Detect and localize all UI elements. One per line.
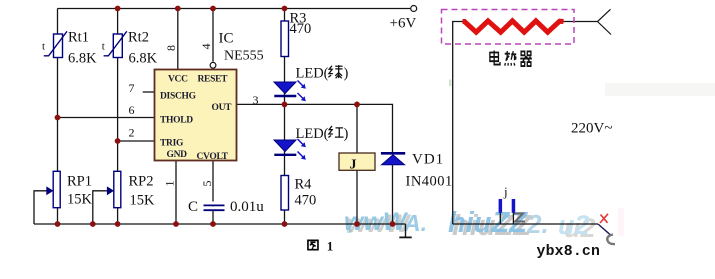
thermistor Rt2 xyxy=(104,31,127,57)
svg-text:ybx8.cn: ybx8.cn xyxy=(537,244,601,260)
value label RP2 xyxy=(129,174,156,209)
value label C xyxy=(188,199,264,215)
svg-text:): ) xyxy=(344,66,349,82)
svg-text:1: 1 xyxy=(327,238,334,253)
svg-text:CVOLT: CVOLT xyxy=(197,152,229,162)
svg-text:VD1: VD1 xyxy=(412,152,444,168)
relay contact j plates xyxy=(499,199,516,213)
svg-text:IC: IC xyxy=(219,31,234,47)
label 220V~ xyxy=(571,121,612,137)
pin number 5 xyxy=(200,181,214,187)
wire RP2 wiper xyxy=(93,191,108,224)
value label VD1 xyxy=(406,152,453,190)
resistor R4 xyxy=(281,176,289,211)
label +6V xyxy=(390,16,417,32)
svg-text:Rt1: Rt1 xyxy=(68,30,89,46)
capacitor C xyxy=(203,202,225,211)
wire pin 7 DISCHG stub xyxy=(143,91,155,93)
svg-text:RP1: RP1 xyxy=(67,174,92,190)
svg-text:0.01u: 0.01u xyxy=(230,199,264,215)
svg-text:A.: A. xyxy=(403,210,427,236)
svg-text:470: 470 xyxy=(295,193,317,209)
svg-text:5: 5 xyxy=(200,181,214,187)
svg-text:7: 7 xyxy=(129,81,135,95)
ground xyxy=(399,224,411,237)
label heater 电热器 xyxy=(490,51,532,67)
svg-text:wwW: wwW xyxy=(344,208,409,236)
value label J xyxy=(350,158,357,173)
svg-text:4: 4 xyxy=(199,44,213,50)
wire bottom right mains line xyxy=(453,223,598,225)
node RESET inversion bubble xyxy=(210,62,216,68)
svg-text:u2: u2 xyxy=(558,210,590,240)
value label R3 xyxy=(290,11,312,38)
LED red xyxy=(274,139,306,160)
LED green xyxy=(274,81,306,102)
svg-text:220V~: 220V~ xyxy=(571,121,612,137)
svg-text:470: 470 xyxy=(290,21,312,37)
IC U1 NE555 timer body xyxy=(155,70,237,161)
svg-text:3: 3 xyxy=(253,93,259,107)
svg-text:Rt2: Rt2 xyxy=(128,30,149,46)
pin number 3 xyxy=(253,93,259,107)
wire relay J branch xyxy=(356,104,358,224)
svg-text:LED(: LED( xyxy=(296,126,329,142)
IC pin names xyxy=(160,75,232,162)
node junction dots xyxy=(55,6,396,227)
wire contact j stubs xyxy=(500,213,513,224)
label figure caption 图 1 xyxy=(308,238,333,253)
value label IC NE555 xyxy=(219,31,264,64)
wire Rt1/RP1 vertical branch xyxy=(57,9,59,225)
value label R4 xyxy=(295,177,317,209)
svg-text:j: j xyxy=(503,184,508,199)
svg-text:C: C xyxy=(188,199,198,215)
potentiometer RP2 xyxy=(107,171,121,207)
svg-text:8: 8 xyxy=(164,45,178,51)
svg-text:RP2: RP2 xyxy=(129,174,154,190)
potentiometer RP1 xyxy=(46,171,60,207)
svg-text:1: 1 xyxy=(162,181,176,187)
svg-text:6.8K: 6.8K xyxy=(68,51,97,67)
wire heater left lead xyxy=(453,22,464,225)
value label LED red xyxy=(296,126,349,142)
svg-text:15K: 15K xyxy=(67,192,93,208)
wire pin 2 TRIG xyxy=(118,140,155,142)
svg-text:THOLD: THOLD xyxy=(160,115,193,125)
value label LED green xyxy=(296,65,349,81)
pin number 4 xyxy=(199,44,213,50)
svg-text:J: J xyxy=(350,158,357,173)
svg-text:GND: GND xyxy=(167,150,188,160)
wire pin 6 THOLD xyxy=(58,117,155,119)
watermark www blue text xyxy=(344,207,596,243)
svg-text:LED(: LED( xyxy=(296,66,329,82)
svg-text:t: t xyxy=(42,41,45,53)
svg-text:2: 2 xyxy=(129,126,135,140)
wire pin 8 VCC xyxy=(177,9,179,70)
label j contact xyxy=(503,184,508,199)
watermark grey Z shadow fragment xyxy=(514,214,525,222)
wire Rt2/RP2 vertical branch xyxy=(117,9,119,225)
svg-text:R4: R4 xyxy=(295,177,313,193)
wire RP1 wiper xyxy=(34,191,48,224)
pin number 6 xyxy=(129,103,135,117)
svg-text:): ) xyxy=(344,126,349,142)
watermark grey fragment c xyxy=(607,235,615,245)
svg-text:IN4001: IN4001 xyxy=(406,174,453,190)
value label RP1 xyxy=(67,174,93,208)
pin number 7 xyxy=(129,81,135,95)
svg-text:6.8K: 6.8K xyxy=(129,51,158,67)
thermistor Rt1 xyxy=(44,31,67,57)
wire pin 5 CVOLT / capacitor xyxy=(212,161,214,225)
wire pin 3 OUT line xyxy=(237,104,393,153)
heater dashed enclosure box xyxy=(442,10,575,45)
svg-text:15K: 15K xyxy=(130,193,156,209)
jpeg artifacts faint xyxy=(347,80,715,237)
mains plug red cross mark xyxy=(600,214,608,223)
wire pin 4 RESET xyxy=(212,9,214,62)
pin number 8 xyxy=(164,45,178,51)
svg-text:OUT: OUT xyxy=(212,103,233,113)
svg-text:t: t xyxy=(102,41,105,53)
wire R3/LED/R4 vertical branch xyxy=(284,9,286,225)
svg-text:6: 6 xyxy=(129,103,135,117)
wire heater right lead xyxy=(563,21,597,23)
svg-text:DISCHG: DISCHG xyxy=(160,92,197,102)
resistor R3 xyxy=(281,21,289,57)
svg-text:VCC: VCC xyxy=(168,75,188,85)
relay coil J xyxy=(339,153,375,170)
heater element coil xyxy=(463,21,564,32)
wire bottom common rail xyxy=(34,223,406,225)
wire pin 1 GND xyxy=(175,161,177,225)
svg-text:TRIG: TRIG xyxy=(160,138,184,148)
wire mains blade bottom xyxy=(598,224,612,236)
svg-text:hiuZZ: hiuZZ xyxy=(448,207,528,239)
node +6V terminal xyxy=(411,6,417,12)
svg-text:RESET: RESET xyxy=(198,75,229,85)
svg-text:NE555: NE555 xyxy=(224,49,264,64)
pin number 2 xyxy=(129,126,135,140)
svg-text:+6V: +6V xyxy=(390,16,417,32)
wire VD1 to rail xyxy=(392,164,394,224)
value label Rt2 xyxy=(102,30,158,67)
diode VD1 xyxy=(381,153,405,165)
wire top +6V rail xyxy=(58,8,411,10)
label ybx8.cn xyxy=(537,244,601,260)
wire mains fork top xyxy=(598,9,612,34)
pin number 1 xyxy=(162,181,176,187)
value label Rt1 xyxy=(42,30,97,67)
